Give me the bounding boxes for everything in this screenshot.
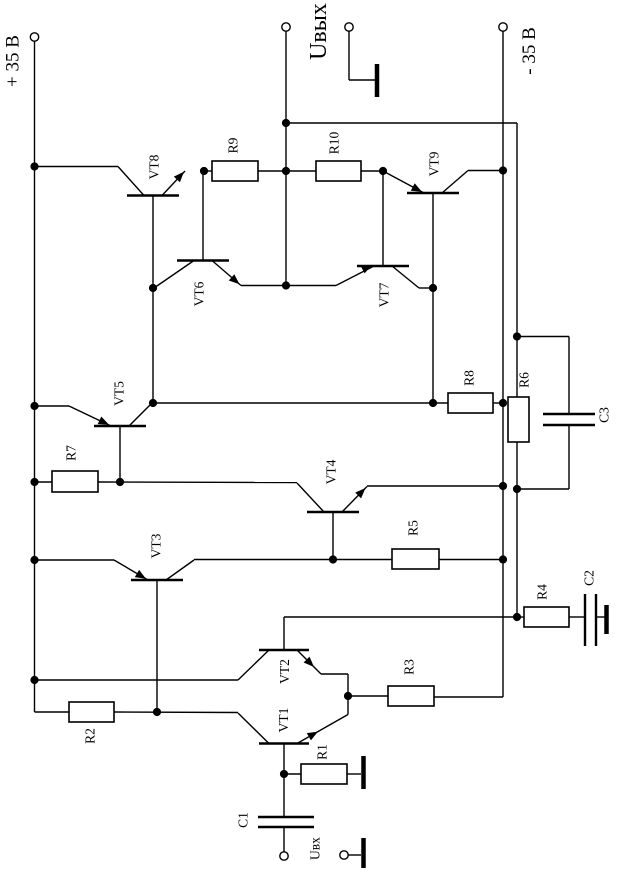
transistor VT2 emitter	[297, 650, 321, 674]
wire output gnd 2	[349, 79, 376, 81]
wire VT8e to R9	[204, 170, 212, 172]
svg-text:R6: R6	[517, 372, 532, 388]
junction VT6c-VT8b	[149, 284, 157, 292]
label R10	[327, 132, 342, 155]
wire R6 bottom to R4 node	[516, 442, 518, 617]
svg-text:R9: R9	[225, 137, 240, 153]
junction output-feedback	[282, 119, 290, 127]
resistor R3	[388, 686, 434, 706]
svg-text:C3: C3	[597, 407, 612, 423]
junction feedback-R4	[513, 613, 521, 621]
resistor R10	[316, 161, 361, 181]
transistor VT9 emitter	[383, 171, 424, 193]
junction emitters-output	[282, 281, 290, 289]
transistor VT9 collector	[442, 171, 468, 194]
resistor R9	[212, 161, 258, 181]
resistor R6	[508, 397, 529, 442]
svg-text:R4: R4	[535, 584, 550, 600]
wire VT1 base lead	[283, 744, 285, 818]
wire VT3c to VT4b	[194, 559, 392, 561]
transistor VT3 base bar	[131, 579, 183, 582]
transistor VT5 collector	[129, 403, 152, 426]
wire VT9 base lead	[432, 193, 434, 403]
svg-text:R5: R5	[406, 520, 421, 536]
transistor VT6 base bar	[177, 259, 229, 262]
junction VT2c rail	[30, 676, 38, 684]
junction R10-VT9e-VT7b	[379, 167, 387, 175]
junction R9-R10-output	[282, 167, 290, 175]
capacitor C3	[543, 414, 595, 425]
svg-text:VT5: VT5	[112, 381, 127, 406]
wire VT2e corner	[321, 674, 348, 696]
transistor VT3 emitter	[114, 560, 148, 580]
junction VT3e rail	[30, 556, 38, 564]
label R1	[315, 744, 330, 760]
wire R7 to VT4c	[98, 481, 297, 484]
junction VT1b-R1	[280, 770, 288, 778]
label R8	[462, 370, 477, 386]
label C2	[582, 570, 597, 586]
wire VT9c to -35V	[468, 170, 503, 172]
wire VT8c to +35V	[35, 166, 119, 168]
svg-text:R10: R10	[327, 132, 342, 155]
label C1	[236, 812, 251, 828]
wire VT2 base lead	[283, 617, 285, 650]
label VT3	[149, 533, 164, 558]
label VT8	[146, 154, 161, 179]
transistor VT3 collector	[166, 560, 194, 580]
node Uvx terminal	[280, 852, 288, 860]
wire R5 to -35V	[439, 559, 503, 561]
transistor VT6 emitter	[212, 261, 241, 286]
svg-text:VT9: VT9	[427, 151, 442, 176]
transistor VT7 collector	[392, 266, 419, 288]
svg-text:VT4: VT4	[324, 459, 339, 484]
transistor VT1 collector	[238, 713, 269, 744]
wire output gnd 1	[348, 31, 350, 80]
wire VT3e to +35V	[35, 559, 115, 561]
wire VT4 base lead	[332, 512, 334, 560]
transistor VT4 collector	[297, 483, 324, 512]
wire R4 left lead	[517, 616, 524, 618]
wire R8 to -35V	[493, 402, 503, 404]
svg-text:R2: R2	[83, 728, 98, 744]
ground output	[375, 64, 380, 97]
junction VT4b-R5	[329, 555, 337, 563]
capacitor C1	[258, 817, 314, 827]
label VT4	[324, 459, 339, 484]
junction emitters-R3	[344, 692, 352, 700]
wire -35V rail	[502, 31, 504, 697]
wire VT4e to -35V	[367, 485, 503, 487]
junction R7 rail	[30, 478, 38, 486]
wire VT6 base lead	[202, 171, 204, 261]
node -35V terminal	[499, 23, 507, 31]
node input gnd terminal	[340, 851, 348, 859]
label -35V	[519, 27, 540, 75]
junction VT8e-VT6b	[200, 167, 208, 175]
wire input gnd	[348, 854, 361, 856]
wire +35V rail to R2	[35, 711, 70, 713]
wire C1 to input terminal	[283, 827, 285, 852]
junction VT3b-R2	[153, 708, 161, 716]
transistor VT9 base bar	[407, 192, 459, 195]
svg-text:R7: R7	[64, 445, 79, 461]
wire output to feedback corner	[286, 122, 517, 124]
svg-text:VT3: VT3	[149, 533, 164, 558]
resistor R4	[524, 607, 569, 627]
junction VT9b-R8wire	[429, 399, 437, 407]
label R2	[83, 728, 98, 744]
transistor VT7 base bar	[357, 265, 409, 268]
junction R5 rail	[499, 555, 507, 563]
wire C2 to gnd	[596, 616, 605, 618]
wire output stub	[285, 31, 287, 123]
wire VT5 base lead	[119, 426, 121, 482]
junction VT9c rail	[499, 166, 507, 174]
node +35V terminal	[30, 33, 38, 41]
wire C3 bottom branch	[517, 425, 569, 489]
transistor VT8 collector	[118, 167, 144, 196]
wire -35V rail to R3	[434, 696, 503, 698]
resistor R7	[52, 471, 98, 492]
label +35V	[3, 35, 24, 87]
wire VT2b to R4 node	[284, 616, 517, 618]
junction VT5c-VT8b-R8wire	[149, 399, 157, 407]
wire VT8 base lead	[152, 196, 154, 404]
svg-text:Uвх: Uвх	[308, 837, 323, 860]
label R5	[406, 520, 421, 536]
svg-text:VT6: VT6	[192, 281, 207, 306]
label VT6	[192, 281, 207, 306]
wire VT2c to +35V	[35, 679, 239, 681]
label VT9	[427, 151, 442, 176]
junction VT7c-VT9b	[429, 284, 437, 292]
junction C3 top tap	[513, 332, 521, 340]
wire R4 to C2	[569, 616, 585, 618]
junction VT5b-R7	[116, 478, 124, 486]
svg-text:C2: C2	[582, 570, 597, 586]
svg-text:R8: R8	[462, 370, 477, 386]
transistor VT8 emitter	[162, 171, 185, 196]
svg-text:Uвых: Uвых	[306, 3, 332, 60]
wire R10 to VT9e	[361, 170, 383, 172]
ground C2	[604, 605, 609, 634]
node output gnd terminal	[345, 23, 353, 31]
svg-text:R3: R3	[402, 659, 417, 675]
wire feedback drop upper	[516, 123, 518, 397]
wire R9 to output	[258, 170, 286, 172]
transistor VT1 base bar	[259, 742, 309, 745]
transistor VT7 emitter	[336, 265, 374, 286]
transistor VT4 emitter	[342, 487, 367, 513]
label VT2	[277, 659, 292, 684]
svg-text:VT7: VT7	[377, 282, 392, 307]
svg-text:VT2: VT2	[277, 659, 292, 684]
svg-text:R1: R1	[315, 744, 330, 760]
label Uvx	[308, 837, 323, 860]
label VT5	[112, 381, 127, 406]
wire output to R10	[286, 170, 316, 172]
label R6	[517, 372, 532, 388]
label Uvyh	[306, 3, 332, 60]
svg-text:VT8: VT8	[146, 154, 161, 179]
wire VT1e riser	[347, 696, 349, 715]
junction C3 bottom tap	[513, 485, 521, 493]
label VT1	[276, 708, 291, 733]
ground input	[361, 838, 366, 868]
transistor VT6 collector	[154, 261, 194, 289]
label C3	[597, 407, 612, 423]
wire VT7 base lead	[382, 171, 384, 266]
wire R1 to gnd	[347, 773, 361, 775]
label VT7	[377, 282, 392, 307]
svg-text:C1: C1	[236, 812, 251, 828]
svg-text:+ 35 В: + 35 В	[3, 35, 24, 87]
junction VT4e rail	[499, 482, 507, 490]
wire VT7e to output	[286, 285, 336, 287]
wire VT3 base lead	[156, 580, 158, 712]
junction VT8c rail	[30, 162, 38, 170]
transistor VT2 base bar	[259, 649, 309, 652]
wire VAS node to R8	[153, 402, 448, 404]
transistor VT8 base bar	[127, 194, 179, 197]
label R9	[225, 137, 240, 153]
transistor VT5 emitter	[69, 406, 111, 426]
svg-text:VT1: VT1	[276, 708, 291, 733]
label R7	[64, 445, 79, 461]
transistor VT5 base bar	[94, 425, 146, 428]
wire VT6e to output	[241, 285, 286, 287]
wire VT7c to VT9b	[419, 287, 433, 289]
wire +35V to R7	[35, 481, 53, 483]
transistor VT2 collector	[238, 650, 269, 680]
label R3	[402, 659, 417, 675]
wire VT1b to R1	[284, 773, 301, 775]
junction VT5e rail	[30, 402, 38, 410]
resistor R1	[301, 764, 347, 784]
label R4	[535, 584, 550, 600]
wire output column	[285, 123, 287, 286]
resistor R5	[392, 549, 439, 569]
node Uvyh terminal	[282, 23, 290, 31]
svg-text:- 35 В: - 35 В	[519, 27, 540, 75]
ground R1	[361, 756, 366, 789]
wire C3 top branch	[517, 337, 569, 415]
junction R8 rail	[499, 399, 507, 407]
resistor R2	[69, 702, 114, 722]
capacitor C2	[585, 594, 596, 646]
resistor R8	[448, 393, 493, 413]
transistor VT4 base bar	[307, 511, 359, 514]
wire R2 to VT1c	[114, 711, 238, 714]
wire emitters to R3	[348, 695, 388, 697]
wire +35V rail	[34, 41, 36, 712]
transistor VT1 emitter	[297, 715, 348, 744]
wire VT5e to +35V	[35, 405, 70, 407]
